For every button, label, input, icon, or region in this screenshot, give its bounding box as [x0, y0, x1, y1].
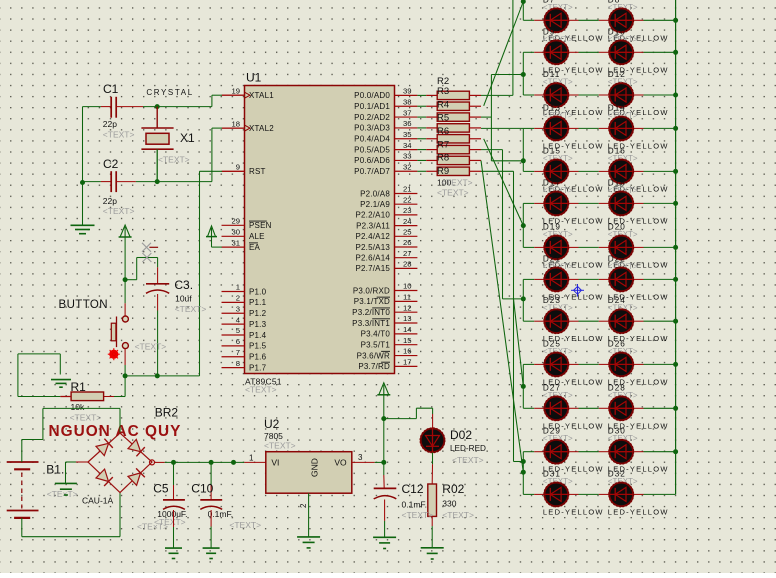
wire LED row 11 left segment: [523, 407, 544, 409]
svg-text:P1.3: P1.3: [249, 320, 267, 329]
pin name P3.3/INT1: [352, 319, 390, 328]
svg-text:5: 5: [236, 326, 240, 335]
svg-text:<TEXT>: <TEXT>: [103, 130, 135, 140]
pin name P1.3: [249, 320, 267, 329]
pin 24 (P2.3/A11) stub: [395, 225, 418, 227]
svg-text:C2: C2: [103, 157, 119, 171]
svg-text:C1: C1: [103, 82, 119, 96]
wire LED row 10 middle segment: [568, 363, 609, 365]
svg-text:P0.6/AD6: P0.6/AD6: [354, 156, 390, 165]
wire net R4 vertical: [490, 75, 492, 161]
crystal X1: [141, 107, 173, 182]
pin 34 (P0.5/AD5) stub: [395, 149, 418, 151]
svg-text:BUTTON: BUTTON: [59, 299, 108, 311]
svg-text:P0.1/AD1: P0.1/AD1: [354, 102, 390, 111]
svg-text:17: 17: [403, 358, 412, 367]
svg-text:R7: R7: [437, 139, 449, 150]
svg-text:16: 16: [403, 347, 412, 356]
junction LED row 10 at bus: [673, 362, 678, 367]
pin 7 (P1.6) stub: [222, 356, 245, 358]
wire U2 GND pin 2: [308, 493, 310, 537]
power VCC arrow button: [119, 225, 132, 237]
diode BR2 bottom-left: [96, 469, 113, 486]
junction LED row 4 at bus: [673, 126, 678, 131]
wire C5 bottom lead: [173, 510, 175, 548]
wire LED row 9 left segment: [523, 320, 544, 322]
svg-text:<TEXT>: <TEXT>: [158, 155, 190, 165]
svg-text:29: 29: [231, 217, 240, 226]
svg-text:CRYSTAL: CRYSTAL: [146, 88, 193, 97]
wire LED row 6 left segment: [523, 202, 544, 204]
pin 4 (P1.3) stub: [222, 323, 245, 325]
diode BR2 top-right: [128, 439, 145, 456]
wire LED row 2 middle segment: [568, 51, 609, 53]
svg-text:<TEXT>: <TEXT>: [441, 178, 473, 188]
svg-text:BR2: BR2: [155, 406, 179, 420]
pin name P2.4/A12: [355, 232, 390, 241]
svg-text:P3.5/T1: P3.5/T1: [361, 341, 391, 350]
junction C2 on ground rail: [80, 180, 85, 185]
node bridge output terminal: [150, 460, 155, 465]
svg-text:15: 15: [403, 336, 412, 345]
svg-text:3: 3: [236, 304, 240, 313]
pin XTAL1 clock arrow: [245, 92, 251, 98]
wire LED row 1 middle segment: [568, 19, 609, 21]
wire LED rows 2-3 pair connector: [522, 52, 524, 95]
ground C5: [165, 548, 182, 558]
LED D19 (LED-YELLOW): [544, 235, 569, 260]
wire C12 top lead: [383, 462, 385, 488]
svg-text:GND: GND: [310, 458, 320, 477]
pin name P1.4: [249, 331, 267, 340]
pin name P2.6/A14: [355, 254, 390, 263]
svg-text:ALE: ALE: [249, 232, 265, 241]
svg-text:18: 18: [231, 119, 240, 128]
pin 25 (P2.4/A12) stub: [395, 235, 418, 237]
wire net R6 diagonal to rows 6-7: [484, 139, 524, 226]
wire LED row 6 middle segment: [568, 202, 609, 204]
svg-text:33: 33: [403, 152, 412, 161]
pin name P2.0/A8: [360, 189, 390, 198]
ground C10: [203, 548, 220, 558]
svg-text:14: 14: [403, 325, 412, 334]
svg-text:10: 10: [403, 282, 412, 291]
svg-text:P2.5/A13: P2.5/A13: [355, 243, 390, 252]
LED D24 (LED-YELLOW): [609, 309, 634, 334]
wire C3 bottom lead: [157, 294, 159, 376]
wire LED row 9 middle segment: [568, 320, 609, 322]
pin 11 (P3.1/TXD) stub: [395, 300, 418, 302]
junction C10 tap: [209, 460, 214, 465]
wire net R4 upper branch to rows 2-3: [491, 74, 523, 76]
junction LED row 11 at bus: [673, 406, 678, 411]
junction LED row 6 at bus: [673, 201, 678, 206]
capacitor C10: [200, 500, 222, 510]
svg-text:35: 35: [403, 130, 412, 139]
pin 30 (ALE) stub: [222, 235, 245, 237]
wire LED row 5 right segment: [633, 170, 675, 172]
svg-text:2: 2: [299, 503, 308, 508]
svg-text:R1: R1: [71, 380, 87, 394]
wire C2 to XTAL2: [116, 128, 244, 182]
wire LED row 3 right segment: [633, 94, 675, 96]
junction net R3 / row1 riser: [521, 0, 526, 4]
wire LED row 6 right segment: [633, 202, 675, 204]
svg-text:R6: R6: [437, 126, 449, 137]
wire D02 to R02: [431, 453, 433, 485]
junction VCC branch to C3: [123, 277, 128, 282]
svg-text:P3.3/INT1: P3.3/INT1: [352, 319, 390, 328]
svg-text:P0.3/AD3: P0.3/AD3: [354, 124, 390, 133]
wire LED row 12 right segment: [633, 451, 675, 453]
LED D25 (LED-YELLOW): [544, 352, 569, 377]
wire LED row 13 left segment: [523, 493, 544, 495]
resistor R4: [437, 113, 481, 121]
pin name P2.3/A11: [356, 221, 390, 230]
ground R1: [51, 380, 71, 388]
pin name P3.5/T1: [361, 341, 391, 350]
svg-text:6: 6: [236, 337, 240, 346]
wire LED row 13 right segment: [633, 493, 675, 495]
svg-text:30: 30: [231, 228, 240, 237]
power VCC arrow EA: [206, 226, 217, 237]
svg-text:P2.4/A12: P2.4/A12: [355, 232, 390, 241]
svg-text:28: 28: [403, 260, 412, 269]
wire bridge to U2 VI: [155, 461, 266, 463]
wire LED row 8 right segment: [633, 278, 675, 280]
wire C5 top lead: [173, 462, 175, 500]
pin name PSEN: [249, 221, 272, 230]
wire LED row 7 left segment: [523, 246, 544, 248]
resistor R2: [437, 91, 481, 99]
svg-text:P0.4/AD4: P0.4/AD4: [354, 135, 390, 144]
wire LED row 3 middle segment: [568, 94, 609, 96]
svg-text:XTAL2: XTAL2: [249, 124, 274, 133]
wire LED row 8 middle segment: [568, 278, 609, 280]
svg-text:21: 21: [403, 185, 412, 194]
svg-text:P0.2/AD2: P0.2/AD2: [354, 113, 390, 122]
svg-text:EA: EA: [249, 243, 261, 252]
wire LED row 9 right segment: [633, 320, 675, 322]
wire branch to D02: [384, 408, 433, 428]
junction aux tap: [231, 460, 236, 465]
svg-text:R5: R5: [437, 113, 449, 124]
resistor R6: [437, 135, 481, 143]
svg-text:330: 330: [442, 499, 456, 509]
svg-text:C12: C12: [402, 482, 424, 496]
wire LED row 4 left segment: [523, 127, 544, 129]
pin 16 (P3.6/WR) stub: [395, 355, 418, 357]
wire C2 left to rail: [83, 181, 112, 183]
junction LED row 3 at bus: [673, 93, 678, 98]
wire C10 top lead: [210, 462, 212, 500]
LED D12 (LED-YELLOW): [609, 83, 634, 108]
svg-text:38: 38: [403, 97, 412, 106]
wire LED row 10 right segment: [633, 363, 675, 365]
svg-text:22p: 22p: [103, 119, 117, 129]
pin name ALE: [249, 232, 265, 241]
svg-text:P2.3/A11: P2.3/A11: [356, 221, 390, 230]
node crystal top junction: [155, 104, 160, 109]
pin 37 (P0.2/AD2) stub: [395, 116, 418, 118]
wire LED row 13 middle segment: [568, 493, 609, 495]
svg-text:CAU-1A: CAU-1A: [82, 496, 114, 506]
svg-text:8: 8: [236, 359, 240, 368]
no-connect cross upper: [142, 243, 151, 252]
probe marker on button: [108, 348, 120, 360]
svg-text:P1.6: P1.6: [249, 353, 267, 362]
svg-text:39: 39: [403, 87, 412, 96]
node crystal bottom junction: [155, 179, 160, 184]
wire LED row 12 middle segment: [568, 451, 609, 453]
ground R02: [421, 548, 444, 559]
pin 13 (P3.3/INT1) stub: [395, 322, 418, 324]
wire R02 to ground: [431, 516, 433, 547]
svg-text:<TEXT>: <TEXT>: [452, 455, 484, 465]
capacitor C2: [111, 171, 116, 192]
diode BR2 bottom-right: [128, 468, 145, 485]
pin name RST: [249, 167, 266, 176]
pin name P3.7/RD: [358, 362, 390, 371]
pin name P1.7: [249, 363, 267, 372]
svg-text:P3.0/RXD: P3.0/RXD: [353, 286, 390, 295]
junction LED row 12 at bus: [673, 449, 678, 454]
svg-text:VO: VO: [334, 458, 347, 468]
svg-text:P1.7: P1.7: [249, 363, 267, 372]
svg-text:1: 1: [249, 454, 254, 463]
capacitor C1: [111, 97, 116, 118]
wire LED row 11 right segment: [633, 407, 675, 409]
svg-text:P3.2/INT0: P3.2/INT0: [352, 308, 390, 317]
pin 19 (XTAL1) stub: [222, 94, 245, 96]
svg-text:P0.5/AD5: P0.5/AD5: [354, 145, 390, 154]
pin 10 (P3.0/RXD) stub: [395, 290, 418, 292]
pin name P0.3/AD3: [354, 124, 390, 133]
wire net R5 output to row 4: [481, 127, 523, 129]
svg-text:P1.5: P1.5: [249, 342, 267, 351]
svg-text:22: 22: [403, 195, 412, 204]
svg-text:R8: R8: [437, 153, 449, 164]
svg-text:LED-YELLOW: LED-YELLOW: [543, 507, 604, 516]
diode BR2 top-left: [96, 439, 113, 456]
pin 33 (P0.6/AD6) stub: [395, 159, 418, 161]
LED D31 (LED-YELLOW): [544, 482, 569, 507]
wire left ground rail: [82, 107, 84, 226]
svg-text:12: 12: [403, 303, 412, 312]
power VCC arrow output: [377, 383, 390, 395]
svg-text:23: 23: [403, 206, 412, 215]
pin name P0.5/AD5: [354, 145, 390, 154]
wire R1 to RST net: [104, 376, 126, 397]
wire LED row 4 right segment: [633, 127, 675, 129]
pin 17 (P3.7/RD) stub: [395, 365, 418, 367]
regulator U2 7805 body: [266, 452, 352, 494]
resistor R8: [437, 156, 481, 164]
wire LED row 1 right segment: [633, 19, 675, 21]
svg-text:<TEXT>: <TEXT>: [264, 441, 296, 451]
pin 9 (RST) stub: [222, 170, 245, 172]
junction rows 10-11 connector: [521, 384, 526, 389]
wire LED row 10 left segment: [523, 363, 544, 365]
pin 18 (XTAL2) stub: [222, 127, 245, 129]
svg-text:10uf: 10uf: [175, 294, 192, 304]
svg-text:VI: VI: [271, 458, 279, 468]
svg-text:1: 1: [236, 283, 240, 292]
svg-text:P2.6/A14: P2.6/A14: [355, 254, 390, 263]
ground C12: [373, 537, 396, 548]
pin 1 (P1.0) stub: [222, 291, 245, 293]
wire C12 bottom lead: [384, 500, 386, 537]
junction rows 12-13 connector lower: [521, 470, 526, 475]
wire LED row 8 left segment: [523, 278, 544, 280]
svg-text:C5: C5: [153, 482, 169, 496]
wire C1 to XTAL1: [116, 95, 244, 106]
wire battery bottom to bridge bottom: [22, 493, 120, 537]
svg-text:<TEXT>: <TEXT>: [103, 206, 135, 216]
LED D13 (LED-YELLOW): [544, 116, 569, 141]
wire C10 bottom lead: [210, 510, 212, 548]
pin 22 (P2.1/A9) stub: [395, 203, 418, 205]
svg-text:36: 36: [403, 119, 412, 128]
svg-text:B1.: B1.: [46, 463, 64, 477]
ground bridge: [55, 483, 77, 495]
LED D26 (LED-YELLOW): [609, 352, 634, 377]
wire net R7 output: [481, 150, 523, 299]
pin name P0.4/AD4: [354, 135, 390, 144]
wire LED row 2 right segment: [633, 51, 675, 53]
pin name P3.4/T0: [361, 330, 391, 339]
pin name P0.7/AD7: [354, 167, 390, 176]
ground U2: [297, 537, 320, 548]
wire C1 left to rail: [83, 106, 112, 108]
junction LED row 7 at bus: [673, 245, 678, 250]
pin XTAL2 clock arrow: [245, 125, 251, 131]
resistor R02: [428, 484, 437, 516]
junction C5 tap: [171, 460, 176, 465]
junction rows 8-9 connector: [521, 296, 526, 301]
svg-text:P3.6/WR: P3.6/WR: [357, 351, 390, 360]
pin name P3.6/WR: [357, 351, 390, 360]
LED D20 (LED-YELLOW): [609, 235, 634, 260]
ground crystal rail: [71, 225, 95, 233]
LED D11 (LED-YELLOW): [544, 83, 569, 108]
wire pin-to-resistor R6: [417, 138, 437, 140]
svg-text:P0.7/AD7: P0.7/AD7: [354, 167, 390, 176]
svg-text:26: 26: [403, 238, 412, 247]
svg-text:11: 11: [403, 293, 411, 302]
LED D10 (LED-YELLOW): [609, 40, 634, 65]
svg-text:<TEXT>: <TEXT>: [70, 413, 102, 423]
pin name XTAL2: [249, 124, 274, 133]
wire pin-to-resistor R3: [417, 105, 437, 107]
wire branch to C3 top: [125, 258, 148, 280]
pin name P0.6/AD6: [354, 156, 390, 165]
pin name P3.2/INT0: [352, 308, 390, 317]
resistor R7: [437, 145, 481, 153]
svg-text:<TEXT>: <TEXT>: [442, 510, 474, 520]
svg-text:34: 34: [403, 141, 412, 150]
pin name P1.6: [249, 353, 267, 362]
junction rows 6-7 connector: [521, 223, 526, 228]
wire RST net riser: [200, 171, 245, 376]
wire net R2 output: [481, 0, 513, 95]
LED D14 (LED-YELLOW): [609, 116, 634, 141]
svg-text:U2: U2: [264, 417, 280, 431]
junction LED row 9 at bus: [673, 319, 678, 324]
junction C3 bottom: [155, 373, 160, 378]
svg-text:U1: U1: [246, 71, 262, 85]
pin 15 (P3.5/T1) stub: [395, 344, 418, 346]
LED D7 (LED-YELLOW): [544, 8, 569, 33]
svg-text:RST: RST: [249, 167, 266, 176]
pin 32 (P0.7/AD7) stub: [395, 170, 418, 172]
pin 2 (P1.1) stub: [222, 301, 245, 303]
wire pin-to-resistor R9: [417, 170, 437, 172]
svg-text:P1.2: P1.2: [249, 309, 267, 318]
wire RST net horizontal: [125, 375, 199, 377]
svg-text:<TEXT>: <TEXT>: [402, 510, 434, 520]
pin 36 (P0.3/AD3) stub: [395, 127, 418, 129]
LED D32 (LED-YELLOW): [609, 482, 634, 507]
wire pin-to-resistor R8: [417, 159, 437, 161]
wire net R9 output: [481, 171, 523, 461]
junction LED row 8 at bus: [673, 277, 678, 282]
svg-text:P1.4: P1.4: [249, 331, 267, 340]
wire LED row 5 left segment: [523, 170, 544, 172]
junction rows 4-5 connector: [521, 158, 526, 163]
svg-text:XTAL1: XTAL1: [249, 91, 274, 100]
pin name P1.5: [249, 342, 267, 351]
pin name EA: [249, 243, 261, 252]
svg-text:7: 7: [236, 348, 240, 357]
svg-text:3: 3: [358, 453, 363, 462]
svg-text:P2.0/A8: P2.0/A8: [360, 189, 390, 198]
svg-text:LED-RED: LED-RED: [450, 444, 486, 453]
svg-text:13: 13: [403, 314, 412, 323]
svg-text:<TEXT>: <TEXT>: [175, 304, 207, 314]
wire LED row 1 riser: [522, 1, 524, 20]
LED D27 (LED-YELLOW): [544, 396, 569, 421]
wire battery top to bridge top: [22, 408, 120, 462]
wire LED rows 6-7 pair connector: [522, 203, 524, 247]
svg-text:<TEXT>: <TEXT>: [154, 517, 186, 527]
cursor crosshair marker: [571, 284, 584, 297]
LED D30 (LED-YELLOW): [609, 439, 634, 464]
pin 29 (PSEN) stub: [222, 224, 245, 226]
svg-text:P3.4/T0: P3.4/T0: [361, 330, 391, 339]
wire net R3 diagonal to row 1: [484, 2, 524, 106]
pin 27 (P2.6/A14) stub: [395, 257, 418, 259]
svg-text:2: 2: [236, 294, 240, 303]
wire LED row 3 left segment: [523, 94, 544, 96]
svg-text:0.1mF.: 0.1mF.: [402, 500, 428, 510]
wire U2 VO pin 3: [352, 461, 384, 463]
pin 28 (P2.7/A15) stub: [395, 267, 418, 269]
svg-text:32: 32: [403, 162, 412, 171]
svg-text:X1: X1: [180, 131, 195, 145]
wire C3 top lead: [148, 258, 158, 284]
pin name P2.2/A10: [355, 211, 390, 220]
wire pin-to-resistor R7: [417, 149, 437, 151]
pin name P3.0/RXD: [353, 286, 390, 295]
pin name P0.0/AD0: [354, 91, 390, 100]
svg-text:27: 27: [403, 249, 412, 258]
pin 21 (P2.0/A8) stub: [395, 193, 418, 195]
LED D29 (LED-YELLOW): [544, 439, 569, 464]
svg-text:<TEXT>: <TEXT>: [135, 342, 167, 352]
wire button bottom lead: [124, 349, 126, 376]
wire LED row 5 middle segment: [568, 170, 609, 172]
